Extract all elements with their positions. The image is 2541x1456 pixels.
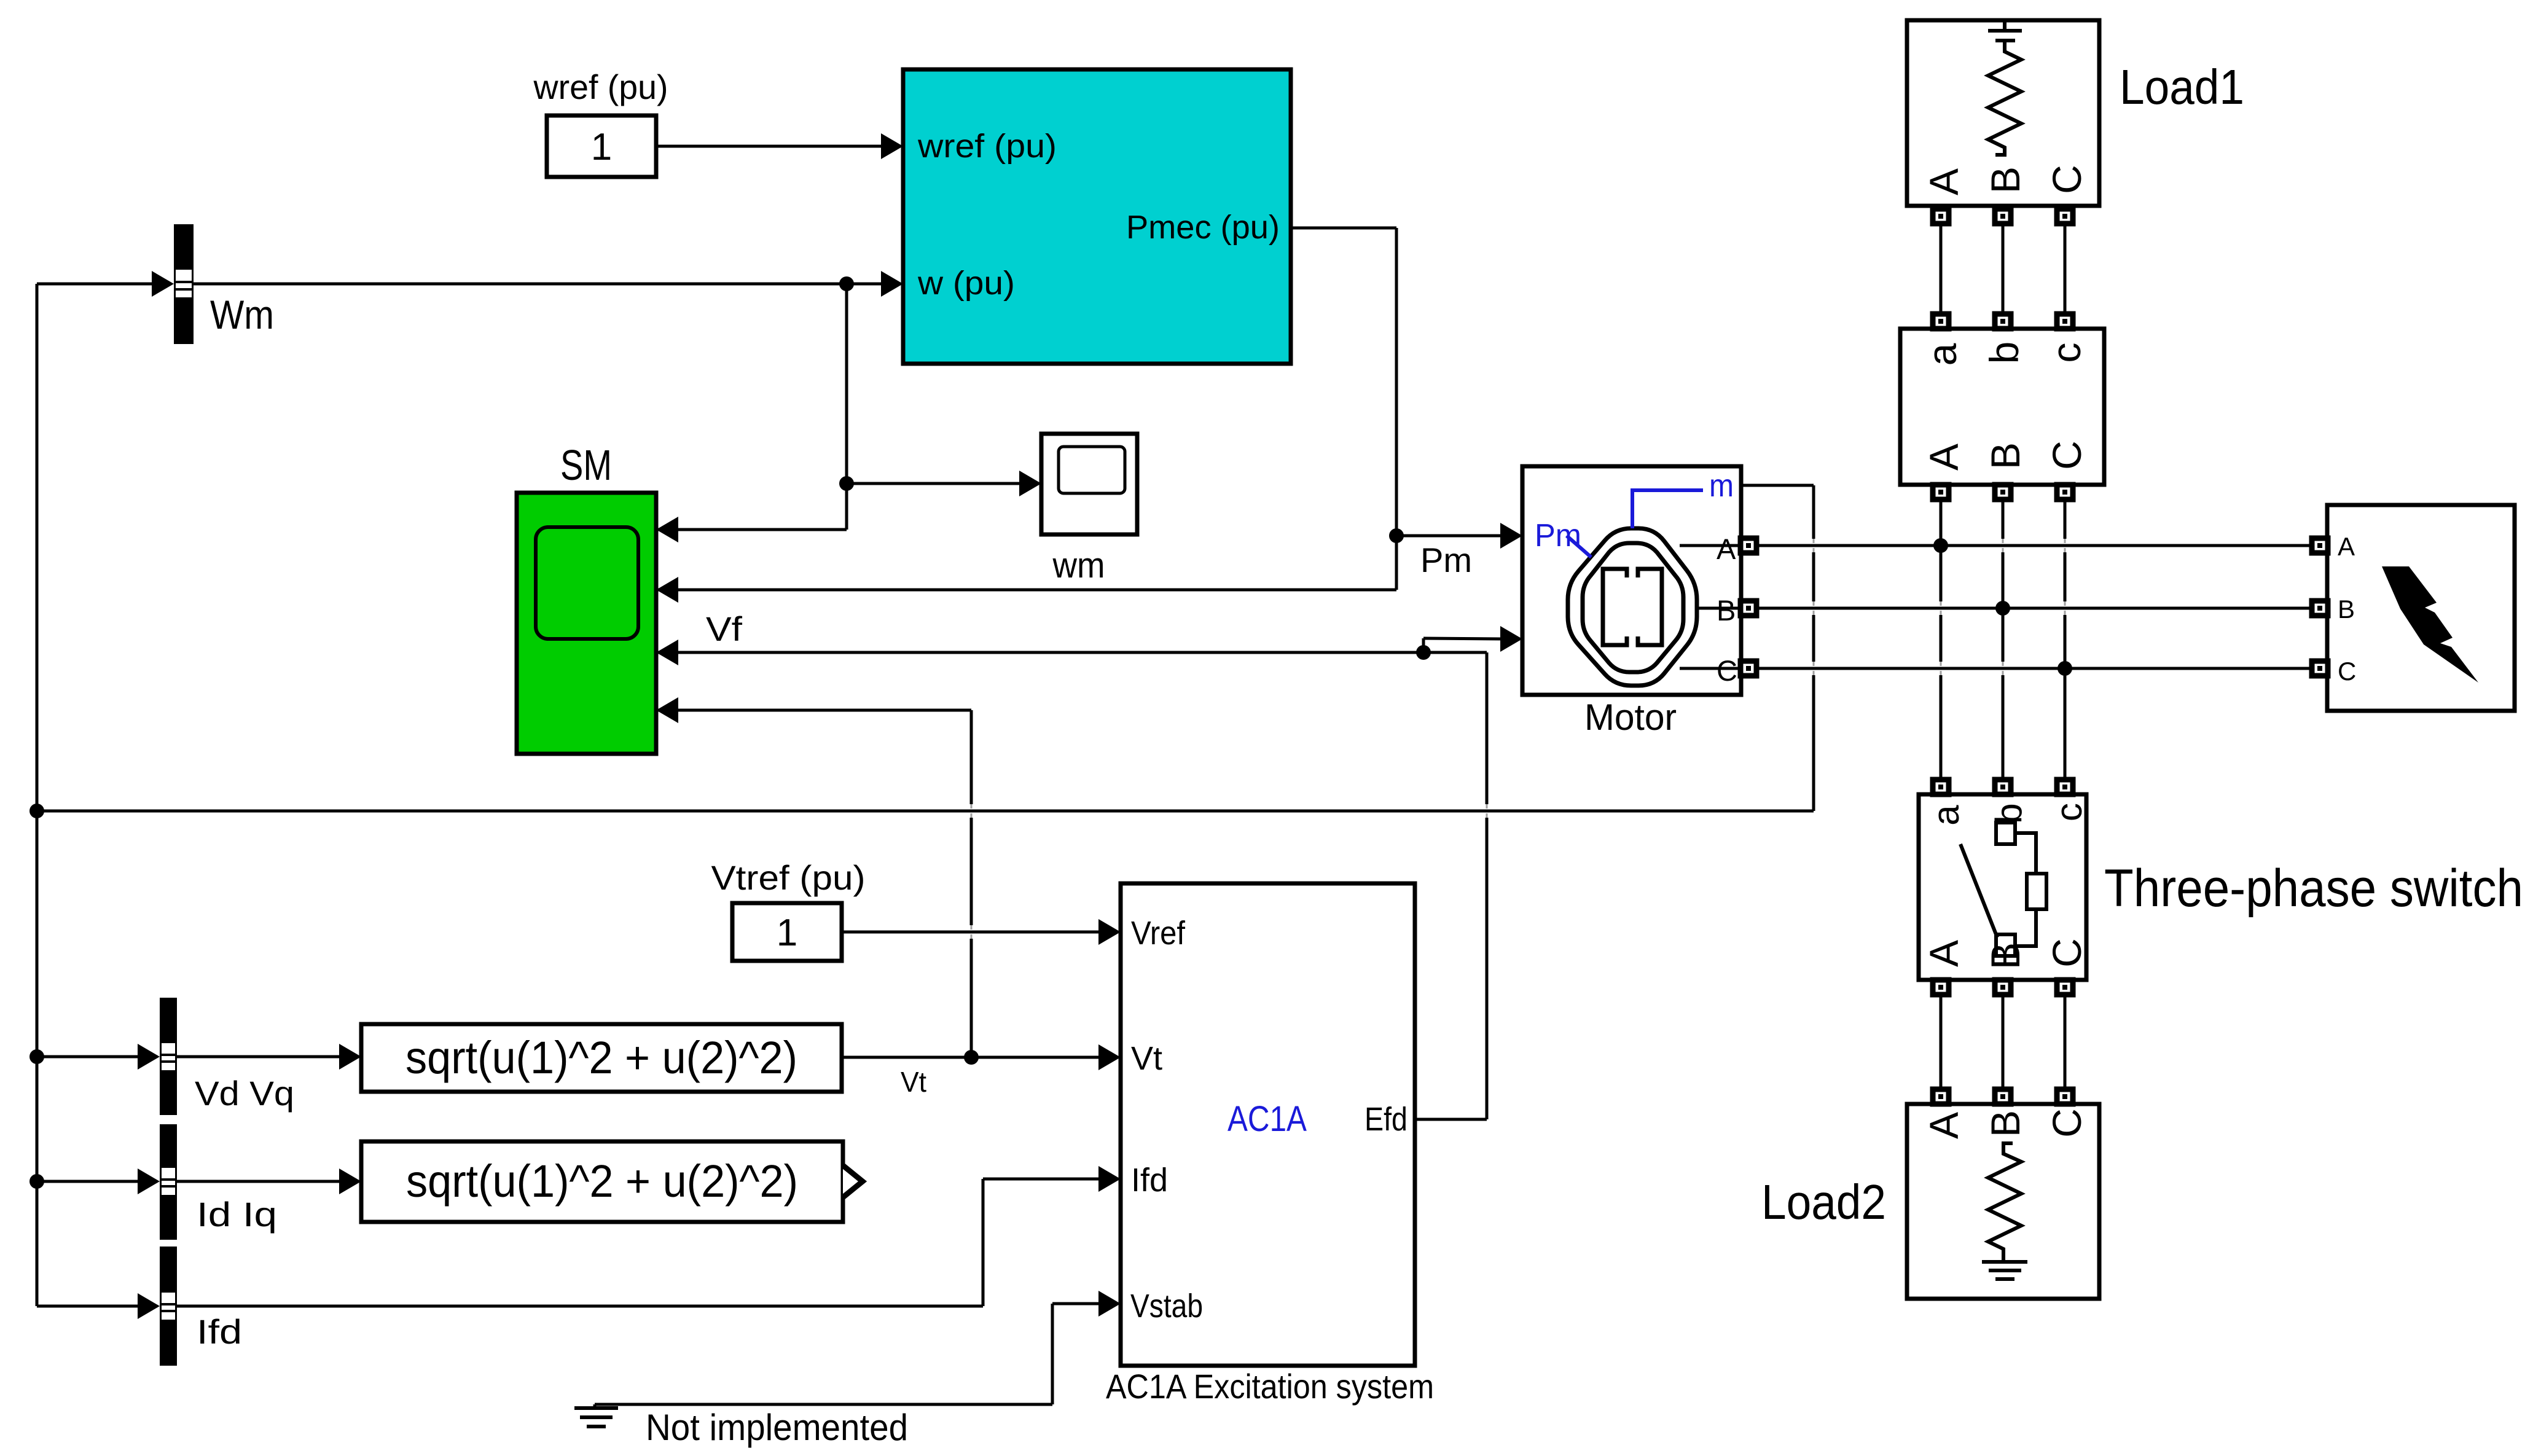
svg-text:B: B [1983,442,2028,469]
svg-text:wm: wm [1052,546,1105,585]
svg-text:B: B [1983,166,2028,194]
svg-text:SM: SM [560,441,612,489]
svg-text:A: A [2338,532,2355,561]
svg-text:Vstab: Vstab [1130,1288,1203,1325]
svg-text:C: C [2044,165,2089,194]
svg-text:w (pu): w (pu) [917,265,1015,302]
svg-text:Id Iq: Id Iq [197,1195,277,1234]
svg-text:B: B [1717,594,1736,627]
svg-text:Ifd: Ifd [197,1312,242,1351]
svg-text:Load1: Load1 [2120,60,2244,114]
svg-text:Efd: Efd [1364,1101,1408,1138]
svg-text:b: b [1988,803,2029,823]
svg-text:sqrt(u(1)^2 + u(2)^2): sqrt(u(1)^2 + u(2)^2) [406,1156,798,1207]
svg-text:Vref: Vref [1131,915,1186,952]
svg-text:Vt: Vt [901,1066,926,1098]
svg-text:A: A [1717,533,1736,565]
svg-text:Vf: Vf [706,609,742,648]
svg-text:wref (pu): wref (pu) [917,128,1057,165]
svg-text:1: 1 [591,126,612,168]
svg-text:C: C [2044,440,2089,470]
svg-text:AC1A: AC1A [1227,1099,1307,1139]
svg-text:Not implemented: Not implemented [646,1407,908,1448]
svg-text:Vtref (pu): Vtref (pu) [711,858,866,897]
svg-text:Ifd: Ifd [1131,1162,1168,1199]
svg-text:Wm: Wm [210,292,274,337]
svg-text:AC1A Excitation system: AC1A Excitation system [1106,1367,1434,1406]
svg-text:Three-phase switch: Three-phase switch [2104,859,2523,918]
svg-text:C: C [2044,1108,2089,1138]
svg-text:a: a [1925,805,1967,826]
svg-text:Pmec (pu): Pmec (pu) [1126,209,1280,246]
svg-text:Vd Vq: Vd Vq [195,1074,294,1113]
svg-text:C: C [2338,657,2356,686]
svg-text:b: b [1981,342,2027,364]
svg-text:c: c [2048,803,2089,821]
svg-text:wref (pu): wref (pu) [533,68,668,106]
svg-text:1: 1 [777,912,797,954]
svg-text:a: a [1919,343,1965,366]
svg-text:A: A [1921,444,1967,471]
svg-text:A: A [1921,940,1967,967]
svg-text:Pm: Pm [1535,518,1581,554]
svg-text:Vt: Vt [1131,1040,1162,1077]
svg-text:Motor: Motor [1584,697,1677,738]
svg-text:sqrt(u(1)^2 + u(2)^2): sqrt(u(1)^2 + u(2)^2) [405,1032,797,1083]
svg-text:B: B [2338,595,2355,624]
svg-text:m: m [1709,468,1734,504]
svg-text:C: C [1717,654,1737,687]
svg-text:Pm: Pm [1420,541,1472,579]
svg-text:A: A [1921,168,1967,195]
svg-text:A: A [1921,1112,1967,1139]
svg-text:B: B [1983,1110,2028,1137]
svg-text:Load2: Load2 [1761,1175,1886,1229]
svg-text:C: C [2044,938,2089,968]
svg-text:c: c [2043,343,2089,363]
